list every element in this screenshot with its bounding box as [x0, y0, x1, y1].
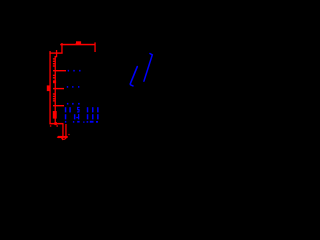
wire: left drop from fuse line: [61, 43, 62, 53]
secondary winding section S2 teeth: [53, 75, 56, 84]
wire: tap 3: [53, 105, 64, 106]
wire: bottom horizontal: [49, 123, 63, 125]
transformer T secondary winding line (right vertical): [55, 56, 56, 123]
junction blob at winding bottom: [54, 122, 56, 125]
annotation slash 1 foot: [131, 85, 134, 86]
annotation slash 2 (blue, right diagonal stroke): [144, 54, 152, 82]
drip dot 1 under bottom wire: [50, 125, 51, 126]
secondary winding section S3 teeth: [53, 93, 55, 101]
wire: top tap horizontal: [49, 52, 62, 53]
arrowhead speck (red): [68, 134, 69, 135]
annotation bottom marks row (blue): [65, 121, 98, 123]
terminal tick right end of fuse line: [94, 42, 95, 52]
secondary winding section S1 teeth: [53, 58, 55, 67]
node dots row after tap1 (blue ellipsis): [68, 70, 81, 72]
annotation dash row B (blue): [65, 114, 99, 119]
transformer T primary side line (left vertical): [49, 51, 50, 124]
secondary winding section S4 solid block: [53, 111, 57, 119]
annotation dash row A (blue): [65, 107, 99, 112]
wire: jog from tick to winding top: [55, 56, 58, 57]
node dots row after tap2 (blue ellipsis): [67, 86, 80, 88]
wire: tap 2: [53, 88, 64, 89]
annotation arrow shaft left (red): [62, 124, 63, 137]
annotation arrow shaft right (red): [65, 124, 66, 137]
annotation glyph in row B (blue): [76, 114, 79, 120]
wire: fuse feed line (top horizontal): [60, 44, 95, 46]
primary winding blob: [47, 85, 51, 91]
node dots row after tap3 (blue ellipsis): [67, 103, 80, 105]
annotation glyph '5' in row A (blue): [77, 107, 80, 113]
fuse F1 (filled box on line): [76, 41, 81, 45]
annotation arrowhead (red): [57, 136, 68, 140]
wire: tap 1: [53, 70, 66, 71]
annotation slash 1 (blue, left diagonal stroke): [130, 67, 137, 84]
terminal tick on top tap: [56, 50, 57, 57]
drip dot 2 under bottom wire: [56, 125, 58, 126]
